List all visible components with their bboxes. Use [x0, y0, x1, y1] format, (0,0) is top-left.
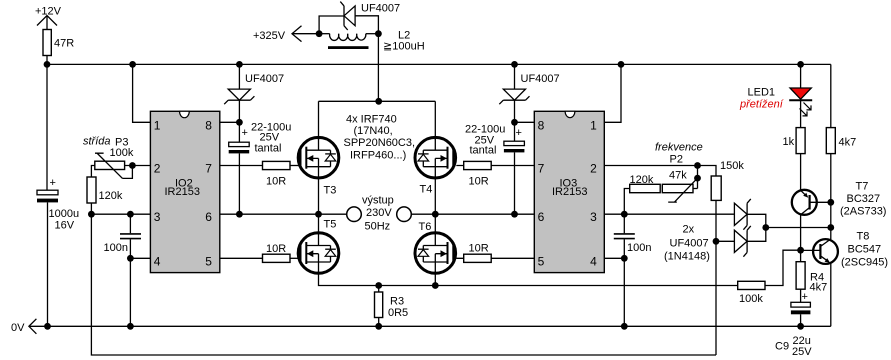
wire UF4007 left column top [238, 64, 240, 89]
wire T4 drain [434, 101, 436, 140]
wire mid to output left [319, 213, 347, 215]
svg-text:3: 3 [590, 210, 597, 224]
capacitor 100n right [614, 234, 635, 239]
capacitor 22-100u right plates [504, 141, 525, 152]
wire UF4007 right column top [514, 64, 516, 89]
svg-text:25V: 25V [792, 346, 812, 358]
wire pin8 IO2 [220, 121, 240, 123]
node dot rail pin1 riser [129, 61, 136, 68]
wire L2 right stub [366, 33, 379, 35]
node dot left pin8 [236, 119, 243, 126]
wire IO3 pin1 riser [604, 64, 621, 122]
svg-text:+: + [50, 177, 56, 189]
resistor 120k right [630, 184, 661, 192]
node dot 0V 100n left [127, 323, 134, 330]
wire T6 source down [434, 271, 436, 286]
wire 100n right column [623, 214, 625, 326]
svg-text:0R5: 0R5 [388, 307, 408, 319]
resistor 47R [43, 30, 51, 56]
svg-text:BC327: BC327 [847, 193, 881, 205]
node dot diode pair [762, 224, 769, 231]
rail 0V [30, 325, 831, 327]
resistor 100k [738, 281, 765, 289]
wire pin6 IO2 mid rail [220, 213, 319, 215]
svg-text:7: 7 [205, 162, 212, 176]
svg-text:7: 7 [538, 162, 545, 176]
wire top +12V rail [47, 63, 831, 65]
wire diode bypass loop right [355, 16, 378, 34]
svg-text:+325V: +325V [253, 30, 286, 42]
svg-text:UF4007: UF4007 [670, 238, 709, 250]
node dot bridge top [375, 98, 382, 105]
wire 120k feedback down [91, 214, 716, 355]
svg-text:10R: 10R [266, 243, 286, 255]
wire R3 leads [378, 286, 380, 327]
node dot T4-T6 mid [432, 211, 439, 218]
svg-text:47R: 47R [54, 38, 74, 50]
wire pin2 to 150k corner [698, 166, 717, 177]
node dot T7 base [827, 199, 834, 206]
wire 100k corner to T8 base [765, 250, 801, 285]
wire 100n top lead left [129, 214, 131, 233]
svg-text:4x IRF740: 4x IRF740 [346, 114, 397, 126]
capacitor C9 22u plates [791, 302, 811, 314]
node dot P3 pin2 [129, 162, 136, 169]
pin numbers IO2 [154, 118, 212, 268]
node dot diode wire T8 collector [827, 224, 834, 231]
potentiometer P2 wiper arrow [668, 178, 697, 202]
svg-text:5: 5 [538, 254, 545, 268]
svg-text:150k: 150k [720, 160, 744, 172]
svg-text:47k: 47k [669, 170, 687, 182]
diode UF4007 (L2 bypass, pointing left) [340, 2, 355, 30]
wire riser to IO2 pin1 [133, 64, 151, 122]
pin numbers IO3 [538, 118, 598, 268]
transistor T5 (MOSFET) [298, 233, 339, 274]
resistor 4k7 top right [826, 128, 835, 154]
wire L2 down to bridge [377, 34, 379, 102]
wire 150k feedback down [715, 241, 717, 355]
wire 10R to T5 gate [290, 257, 300, 259]
resistor 10R (T3 gate) [263, 161, 291, 169]
svg-text:UF4007: UF4007 [521, 73, 560, 85]
svg-text:+: + [242, 127, 248, 139]
IC IO3 IR2153 body [534, 111, 604, 272]
svg-text:(2AS733): (2AS733) [840, 206, 886, 218]
node dot cap mid left [236, 211, 243, 218]
wire LED to 1k [800, 100, 802, 127]
resistor 150k [711, 176, 721, 200]
wire 10R to T3 gate [290, 165, 300, 167]
svg-text:1000u: 1000u [49, 208, 80, 220]
terminal output left circle [347, 207, 362, 222]
svg-text:P2: P2 [670, 154, 683, 166]
svg-text:T4: T4 [420, 184, 433, 196]
svg-text:T5: T5 [324, 219, 337, 231]
wire T5 drain [318, 214, 320, 235]
wire 4k7 to T7 base node [830, 154, 832, 240]
wire pin3 row left [91, 213, 150, 215]
wire 22-100u right bottom [514, 152, 516, 214]
wire +325V arrow lead [292, 33, 319, 35]
node dot P2 top [694, 162, 701, 169]
resistor R3 0R5 [375, 292, 383, 318]
node dot R3 0V [375, 323, 382, 330]
svg-text:+: + [516, 127, 522, 139]
svg-text:1: 1 [590, 118, 597, 132]
svg-text:IR2153: IR2153 [552, 186, 587, 198]
node dot 120k pin3 [88, 211, 95, 218]
svg-text:IRFP460...): IRFP460...) [350, 150, 406, 162]
svg-text:T3: T3 [324, 185, 337, 197]
svg-text:výstup: výstup [362, 195, 394, 207]
svg-text:5: 5 [205, 254, 212, 268]
capacitor 100n left [120, 234, 141, 239]
wire D2 cathode corner [747, 228, 766, 242]
node dot 100n pin4 left [127, 255, 134, 262]
transistor T6 (MOSFET mirrored) [415, 233, 456, 274]
wire D1 cathode corner [747, 214, 766, 227]
power +12V arrow [37, 16, 57, 26]
wire left column bottom [47, 202, 49, 326]
diode UF4007 (right bootstrap, pointing down) [499, 89, 529, 104]
wire pin6 IO3 mid rail [435, 213, 534, 215]
wire output right to mid [411, 213, 435, 215]
wire T4 source to mid rail [434, 176, 436, 214]
wire T3 source to mid rail [318, 176, 320, 214]
svg-text:1k: 1k [783, 136, 795, 148]
node dot T7c T8b R4 [797, 247, 804, 254]
wire pin8 IO3 [515, 121, 535, 123]
power 0V arrow [29, 319, 37, 334]
resistor 10R (T5 gate) [263, 254, 291, 262]
svg-text:16V: 16V [55, 220, 75, 232]
node dot 0V 1000u [44, 323, 51, 330]
node dot 0V 100n right [621, 323, 628, 330]
power +325V arrow [292, 26, 302, 42]
svg-text:4: 4 [590, 254, 597, 268]
node dot L2 right [375, 30, 382, 37]
bridge top rail [319, 100, 436, 102]
svg-text:+12V: +12V [35, 6, 62, 18]
svg-text:120k: 120k [630, 174, 654, 186]
wire T6 drain [434, 214, 436, 235]
IC IO2 IR2153 body [150, 111, 219, 272]
svg-text:+: + [802, 291, 808, 303]
wire C9 to 0V [800, 314, 802, 326]
node dot P2 wiper [694, 175, 701, 182]
svg-text:6: 6 [205, 210, 212, 224]
wire 120k to pin3 node [90, 203, 92, 214]
wire right rail corner down to 4k7 [830, 64, 832, 127]
node dot 100n top left [127, 211, 134, 218]
svg-text:UF4007: UF4007 [361, 3, 400, 15]
wire left column top [46, 64, 48, 190]
svg-text:LED1: LED1 [748, 87, 776, 99]
svg-text:10R: 10R [469, 176, 489, 188]
svg-text:2: 2 [154, 162, 161, 176]
svg-text:T7: T7 [856, 181, 869, 193]
wire T3 drain [318, 101, 320, 140]
resistor 120k left [87, 177, 96, 203]
wire 1k to T7 emitter [800, 154, 802, 191]
svg-text:4k7: 4k7 [810, 282, 828, 294]
wire diode bypass loop left [319, 16, 344, 34]
inductor L2 coil [330, 34, 366, 41]
svg-text:T6: T6 [419, 221, 432, 233]
node dot rail UF4007 right [511, 61, 518, 68]
wire pin2 IO3 row [604, 165, 697, 167]
svg-text:100k: 100k [110, 147, 134, 159]
wire 100n bottom lead left [129, 239, 131, 326]
svg-text:100k: 100k [739, 293, 763, 305]
wire D2 anode [716, 240, 734, 242]
svg-text:střída: střída [83, 136, 111, 148]
wire 120k to pin3 riser [624, 189, 629, 215]
svg-text:T8: T8 [857, 231, 870, 243]
svg-text:přetížení: přetížení [739, 99, 784, 111]
wire IO3 pin5 from 10R [456, 257, 534, 259]
svg-text:SPP20N60C3,: SPP20N60C3, [344, 137, 416, 149]
node dot 150k diode2 [713, 238, 720, 245]
node dot right pin8 [511, 119, 518, 126]
svg-text:2x: 2x [683, 224, 695, 236]
wire diode to pin8 node right [514, 100, 516, 141]
svg-text:≧100uH: ≧100uH [383, 41, 425, 53]
wire T5 source down corner [319, 271, 738, 286]
resistor 10R (T4 gate) [464, 161, 492, 169]
node dot rail LED branch [797, 61, 804, 68]
wire P3 left to 120k [91, 166, 94, 178]
node dot cap mid right [511, 211, 518, 218]
wire diode node to T7 base column [766, 227, 831, 229]
wire P3 right to pin2 [125, 165, 151, 167]
svg-text:4k7: 4k7 [839, 137, 857, 149]
wire P3 wiper to right terminal [123, 166, 133, 179]
svg-text:120k: 120k [99, 190, 123, 202]
wire pin7 IO2 to 10R T3 [220, 165, 263, 167]
wire P2 right terminal [693, 188, 698, 190]
svg-text:100n: 100n [627, 242, 651, 254]
svg-text:C9: C9 [775, 341, 789, 353]
wire pin4 IO3 [604, 257, 624, 259]
svg-text:6: 6 [538, 210, 545, 224]
svg-text:tantal: tantal [255, 143, 282, 155]
node dot pin4 right [621, 255, 628, 262]
svg-text:BC547: BC547 [848, 244, 882, 256]
transistor T8 BC547 (NPN) [801, 239, 838, 264]
wire LED column from rail [800, 64, 802, 88]
resistor R4 4k7 [796, 262, 805, 290]
wire R4 to C9 [800, 289, 802, 302]
wire pin3 IO3 row to diode [604, 213, 734, 215]
wire IO3 pin7 from 10R [456, 165, 534, 167]
potentiometer P3 body [95, 161, 125, 169]
node dot 12V-47R [44, 61, 51, 68]
transistor T7 BC327 (PNP) [792, 190, 831, 215]
svg-text:(2SC945): (2SC945) [841, 257, 888, 269]
wire pin4 IO2 [130, 257, 150, 259]
LED LED1 red [789, 88, 812, 116]
svg-text:frekvence: frekvence [655, 142, 703, 154]
node dot R3 top [375, 282, 382, 289]
svg-text:2: 2 [590, 162, 597, 176]
svg-text:10R: 10R [266, 176, 286, 188]
wire 22-100u left bottom [238, 153, 240, 214]
wire 150k bottom to diode node [715, 200, 717, 241]
transistor T4 (MOSFET mirrored) [415, 137, 456, 178]
node dot rail IO3 pin1 riser [618, 61, 625, 68]
node dot pin3 right [621, 211, 628, 218]
node dot rail UF4007 left [236, 61, 243, 68]
wire +12V arrow stem [46, 16, 48, 30]
svg-text:8: 8 [205, 118, 212, 132]
transistor T3 (MOSFET) [298, 137, 339, 178]
svg-text:1: 1 [154, 118, 161, 132]
node dot T6 source [432, 282, 439, 289]
wire T8 emitter to 0V [830, 263, 832, 326]
node dot 0V C9 [797, 323, 804, 330]
svg-text:R3: R3 [390, 296, 404, 308]
resistor 1k [796, 128, 805, 154]
capacitor 22-100u left plates [229, 142, 250, 153]
svg-text:230V: 230V [366, 207, 392, 219]
wire P2 wiper node [697, 166, 699, 189]
svg-text:(1N4148): (1N4148) [664, 251, 710, 263]
svg-text:100n: 100n [104, 242, 128, 254]
capacitor 1000u/16V plates [37, 190, 58, 202]
inductor L2 core bar [328, 46, 369, 49]
wire 47R to rail [46, 56, 48, 65]
node dot T3-T5 mid [315, 211, 322, 218]
svg-text:3: 3 [154, 210, 161, 224]
svg-text:50Hz: 50Hz [365, 221, 391, 233]
wire diode to pin8 node left [238, 100, 240, 142]
resistor 10R (T6 gate) [464, 254, 492, 262]
svg-text:(17N40,: (17N40, [354, 125, 393, 137]
wire T7 collector down [800, 215, 802, 262]
wire L2 left stub [319, 33, 330, 35]
svg-text:IR2153: IR2153 [165, 186, 200, 198]
wire pin5 IO2 to 10R T5 [220, 257, 263, 259]
svg-text:UF4007: UF4007 [245, 73, 284, 85]
diode D1 2x UF4007 top (pointing right) [734, 199, 750, 230]
svg-text:0V: 0V [11, 322, 25, 334]
svg-text:4: 4 [154, 254, 161, 268]
potentiometer P3 wiper arrow [95, 153, 123, 178]
diode UF4007 (left bootstrap, pointing down) [224, 89, 254, 104]
svg-text:tantal: tantal [470, 145, 497, 157]
diode D2 2x UF4007 bottom (pointing right) [734, 226, 750, 257]
node dot L2 left [316, 30, 323, 37]
svg-text:8: 8 [538, 118, 545, 132]
potentiometer P2 body [662, 184, 693, 192]
svg-text:10R: 10R [469, 243, 489, 255]
terminal output right circle [397, 207, 412, 222]
